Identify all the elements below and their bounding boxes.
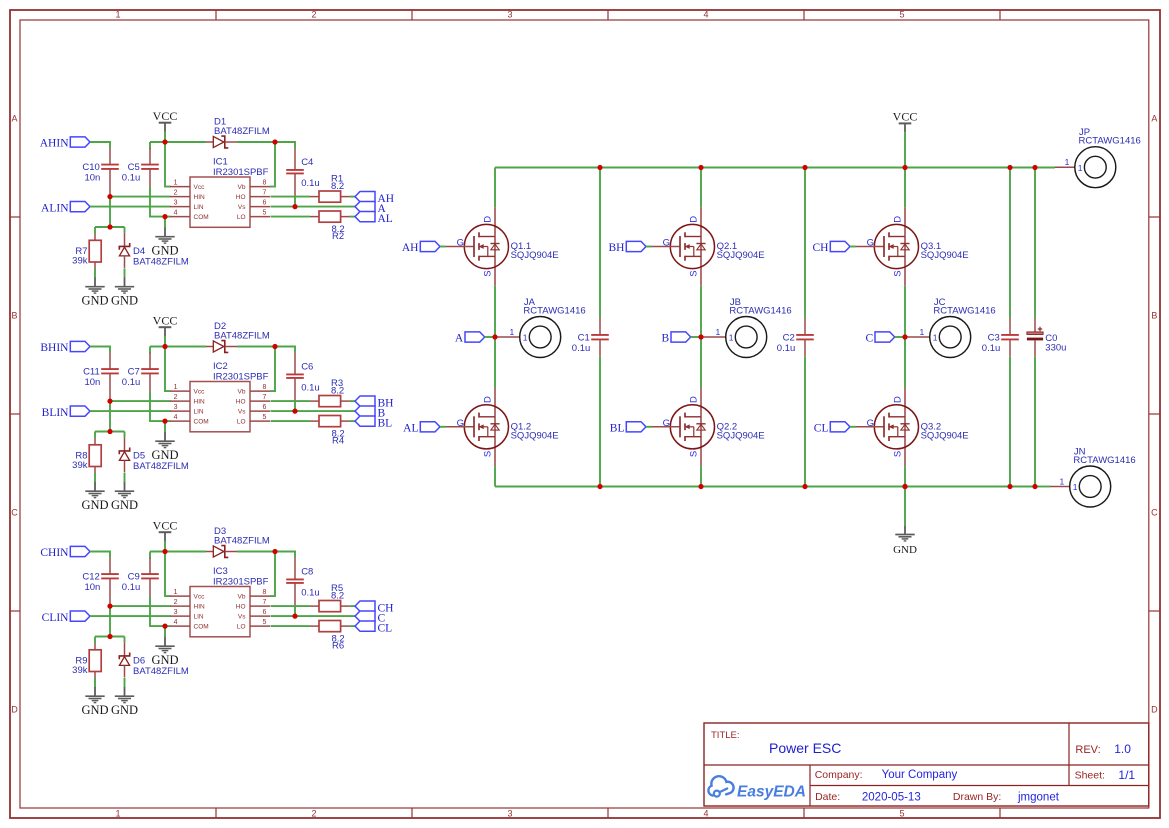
svg-text:8: 8 (263, 384, 267, 391)
wire (94, 637, 96, 644)
svg-text:BLIN: BLIN (42, 407, 70, 419)
svg-text:8.2: 8.2 (331, 181, 344, 192)
svg-text:A: A (11, 114, 17, 124)
net flag C (866, 332, 895, 345)
svg-text:5: 5 (263, 619, 267, 626)
svg-text:0.1u: 0.1u (301, 178, 320, 189)
ground (111, 278, 138, 308)
svg-text:COM: COM (194, 623, 209, 630)
svg-text:TITLE:: TITLE: (711, 730, 740, 741)
wire (850, 246, 856, 248)
capacitor C10 (82, 148, 118, 197)
wire (294, 402, 296, 411)
svg-text:B: B (1151, 311, 1157, 321)
wire (124, 637, 126, 643)
power flag VCC (IC3 section) (153, 518, 178, 551)
junction (698, 484, 703, 489)
junction (107, 399, 112, 404)
svg-text:6: 6 (263, 404, 267, 411)
IC IC2 IR2301SPBF (170, 361, 270, 432)
junction (107, 429, 112, 434)
svg-text:CH: CH (813, 242, 829, 254)
svg-text:Vb: Vb (238, 388, 246, 395)
junction (1007, 165, 1012, 170)
capacitor C0 (1027, 318, 1067, 357)
svg-text:2: 2 (311, 10, 316, 20)
svg-text:BHIN: BHIN (40, 342, 69, 354)
svg-text:C10: C10 (82, 162, 99, 173)
wire (270, 142, 275, 187)
wire (150, 597, 165, 627)
junction (1032, 484, 1037, 489)
net flag CL (814, 422, 850, 435)
connector JP RCTAWG1416 (1055, 127, 1141, 188)
wire (1034, 168, 1036, 319)
svg-text:D: D (11, 705, 18, 715)
ground (111, 687, 138, 717)
resistor R4 (310, 416, 350, 447)
wire (110, 400, 171, 402)
capacitor C8 (286, 558, 320, 608)
net flag AH (402, 241, 440, 254)
svg-text:LIN: LIN (194, 408, 204, 415)
junction (1032, 165, 1037, 170)
svg-text:BAT48ZFILM: BAT48ZFILM (133, 666, 189, 677)
wire (485, 336, 495, 338)
wire (1035, 486, 1050, 488)
wire (495, 167, 1035, 169)
diode D3 (206, 526, 270, 557)
resistor R5 (310, 583, 350, 612)
wire (494, 168, 496, 208)
wire (124, 268, 126, 277)
svg-text:S: S (892, 451, 903, 457)
svg-text:C: C (1151, 508, 1158, 518)
svg-text:B: B (11, 311, 17, 321)
svg-text:Vs: Vs (238, 408, 246, 415)
svg-text:0.1u: 0.1u (777, 343, 796, 354)
junction (162, 344, 167, 349)
svg-text:C7: C7 (128, 366, 140, 377)
svg-text:330u: 330u (1045, 342, 1066, 353)
wire (95, 226, 125, 228)
wire (94, 473, 96, 482)
wire (165, 625, 171, 627)
svg-text:1: 1 (115, 808, 120, 818)
junction (162, 139, 167, 144)
svg-text:4: 4 (174, 209, 178, 216)
svg-text:39k: 39k (72, 665, 88, 676)
svg-text:AL: AL (378, 213, 393, 225)
wire (1034, 357, 1036, 487)
power flag VCC (bridge) (893, 110, 918, 168)
junction (107, 194, 112, 199)
svg-text:C9: C9 (128, 571, 140, 582)
diode D4 (119, 233, 189, 268)
ground (81, 687, 108, 717)
net flag BHIN (40, 341, 90, 354)
wire (904, 286, 906, 388)
svg-text:1: 1 (523, 333, 528, 343)
svg-text:IC2: IC2 (213, 361, 228, 372)
svg-text:39k: 39k (72, 460, 88, 471)
svg-text:R2: R2 (332, 231, 344, 242)
svg-text:GND: GND (111, 293, 138, 307)
svg-text:REV:: REV: (1075, 744, 1100, 756)
svg-text:1: 1 (1065, 157, 1070, 167)
svg-text:BAT48ZFILM: BAT48ZFILM (133, 461, 189, 472)
svg-text:5: 5 (263, 209, 267, 216)
svg-text:1: 1 (174, 384, 178, 391)
wire (646, 246, 652, 248)
capacitor C12 (82, 558, 118, 607)
wire (90, 552, 110, 558)
junction (802, 484, 807, 489)
ground (151, 432, 178, 462)
svg-text:IR2301SPBF: IR2301SPBF (213, 371, 269, 382)
wire (237, 347, 295, 353)
wire (109, 401, 111, 431)
transistor Q1.1 (446, 207, 559, 286)
svg-text:2: 2 (174, 189, 178, 196)
svg-text:5: 5 (899, 10, 904, 20)
svg-text:CHIN: CHIN (40, 547, 69, 559)
wire (165, 142, 171, 187)
svg-text:A: A (1151, 114, 1157, 124)
wire (700, 168, 702, 208)
capacitor C7 (122, 353, 159, 392)
svg-text:HO: HO (236, 398, 246, 405)
svg-text:1.0: 1.0 (1114, 742, 1131, 756)
svg-text:CL: CL (378, 623, 393, 635)
wire (90, 410, 171, 412)
svg-text:jmgonet: jmgonet (1017, 791, 1060, 803)
capacitor C11 (83, 353, 119, 402)
wire (271, 410, 356, 412)
IC IC1 IR2301SPBF (170, 156, 270, 227)
capacitor C9 (122, 558, 159, 597)
wire (440, 246, 446, 248)
svg-text:RCTAWG1416: RCTAWG1416 (1073, 455, 1135, 466)
diode D1 (206, 117, 270, 148)
capacitor C3 (982, 318, 1019, 357)
svg-text:G: G (457, 418, 464, 429)
svg-text:LIN: LIN (194, 204, 204, 211)
wire (164, 421, 166, 432)
svg-text:D: D (482, 396, 493, 403)
wire (294, 607, 296, 616)
wire (350, 605, 355, 607)
svg-text:GND: GND (81, 293, 108, 307)
svg-text:LO: LO (237, 623, 246, 630)
junction (292, 614, 297, 619)
svg-text:1: 1 (509, 327, 514, 337)
svg-text:Company:: Company: (815, 769, 863, 781)
svg-text:1: 1 (715, 327, 720, 337)
svg-text:GND: GND (111, 498, 138, 512)
svg-text:3: 3 (174, 404, 178, 411)
wire (164, 626, 166, 637)
junction (272, 139, 277, 144)
net flag AL (355, 211, 393, 225)
svg-text:1: 1 (1073, 482, 1078, 492)
wire (350, 196, 355, 198)
svg-text:Vb: Vb (238, 184, 246, 191)
svg-text:G: G (663, 238, 670, 249)
svg-text:7: 7 (263, 394, 267, 401)
power flag VCC (IC1 section) (153, 109, 178, 142)
net flag CH (355, 601, 393, 615)
svg-text:10n: 10n (84, 377, 100, 388)
svg-text:IR2301SPBF: IR2301SPBF (213, 576, 269, 587)
wire (237, 142, 295, 148)
ground (151, 228, 178, 258)
svg-text:Sheet:: Sheet: (1075, 770, 1105, 782)
svg-text:0.1u: 0.1u (122, 582, 141, 593)
resistor R1 (310, 174, 350, 203)
junction (272, 344, 277, 349)
svg-text:BAT48ZFILM: BAT48ZFILM (133, 256, 189, 267)
svg-text:C12: C12 (82, 571, 99, 582)
transistor Q1.2 (446, 388, 559, 467)
svg-text:Vs: Vs (238, 204, 246, 211)
svg-text:D: D (1151, 705, 1158, 715)
svg-text:GND: GND (893, 544, 917, 556)
capacitor C5 (122, 148, 159, 187)
junction (162, 214, 167, 219)
svg-text:0.1u: 0.1u (122, 377, 141, 388)
wire (271, 196, 311, 198)
wire (271, 206, 356, 208)
svg-text:HO: HO (236, 603, 246, 610)
svg-text:VCC: VCC (153, 518, 178, 532)
svg-text:1: 1 (729, 333, 734, 343)
diode D5 (119, 437, 189, 472)
svg-text:Power ESC: Power ESC (769, 740, 841, 756)
capacitor C2 (777, 318, 814, 357)
net flag AL (403, 422, 440, 435)
svg-text:AHIN: AHIN (40, 138, 69, 150)
svg-text:D: D (688, 396, 699, 403)
net flag A (355, 201, 387, 215)
svg-text:5: 5 (899, 808, 904, 818)
wire (895, 336, 905, 338)
svg-text:CL: CL (814, 423, 829, 435)
svg-text:C1: C1 (578, 332, 590, 343)
svg-text:IR2301SPBF: IR2301SPBF (213, 167, 269, 178)
svg-text:SQJQ904E: SQJQ904E (921, 250, 969, 261)
svg-text:1: 1 (933, 333, 938, 343)
junction (292, 204, 297, 209)
svg-text:1: 1 (115, 10, 120, 20)
svg-text:EasyEDA: EasyEDA (737, 784, 806, 801)
resistor R9 (72, 643, 101, 678)
net flag B (355, 406, 386, 420)
svg-text:3: 3 (174, 609, 178, 616)
transistor Q2.2 (652, 388, 765, 467)
svg-text:G: G (457, 238, 464, 249)
svg-text:GND: GND (81, 703, 108, 717)
capacitor C6 (286, 353, 320, 403)
svg-text:C6: C6 (301, 362, 313, 373)
wire (700, 466, 702, 486)
svg-text:VCC: VCC (153, 109, 178, 123)
diode D2 (206, 321, 270, 352)
wire (165, 216, 171, 218)
connector JC RCTAWG1416 (905, 297, 996, 358)
net flag BLIN (42, 406, 90, 419)
junction (902, 165, 907, 170)
resistor R2 (310, 211, 350, 242)
wire (804, 168, 806, 319)
ground (111, 482, 138, 512)
svg-text:6: 6 (263, 199, 267, 206)
junction (162, 624, 167, 629)
svg-text:Your Company: Your Company (882, 769, 958, 781)
svg-text:IC1: IC1 (213, 156, 228, 167)
svg-text:1/1: 1/1 (1118, 768, 1135, 782)
net flag C (355, 611, 386, 625)
svg-text:6: 6 (263, 609, 267, 616)
EasyEDA logo (708, 776, 806, 800)
wire (495, 486, 1035, 488)
svg-text:S: S (482, 270, 493, 276)
junction (902, 484, 907, 489)
net flag CL (355, 621, 392, 635)
junction (492, 334, 497, 339)
ground (81, 482, 108, 512)
wire (494, 466, 496, 486)
svg-text:C: C (11, 508, 18, 518)
junction (902, 334, 907, 339)
wire (804, 357, 806, 487)
svg-text:R4: R4 (332, 436, 344, 447)
wire (90, 347, 110, 353)
ground (81, 278, 108, 308)
junction (292, 409, 297, 414)
wire (150, 551, 206, 553)
svg-text:4: 4 (174, 414, 178, 421)
wire (150, 346, 206, 348)
wire (271, 420, 311, 422)
wire (700, 286, 702, 388)
wire (149, 142, 151, 149)
svg-text:HIN: HIN (194, 398, 206, 405)
svg-text:RCTAWG1416: RCTAWG1416 (729, 305, 791, 316)
net flag BH (609, 241, 646, 254)
connector JA RCTAWG1416 (495, 297, 586, 358)
wire (149, 552, 151, 559)
wire (149, 347, 151, 354)
svg-text:1: 1 (1078, 163, 1083, 173)
svg-text:S: S (688, 270, 699, 276)
svg-text:2: 2 (311, 808, 316, 818)
net flag CH (813, 241, 850, 254)
wire (164, 217, 166, 228)
svg-text:8: 8 (263, 589, 267, 596)
net flag B (662, 332, 691, 345)
wire (350, 216, 355, 218)
connector JB RCTAWG1416 (701, 297, 792, 358)
svg-text:B: B (662, 333, 670, 345)
svg-text:COM: COM (194, 418, 209, 425)
net flag AH (355, 191, 394, 205)
svg-text:C5: C5 (128, 162, 140, 173)
svg-text:7: 7 (263, 189, 267, 196)
svg-text:BH: BH (609, 242, 625, 254)
svg-text:3: 3 (507, 10, 512, 20)
svg-text:Vcc: Vcc (194, 388, 206, 395)
transistor Q3.2 (856, 388, 969, 467)
svg-text:5: 5 (263, 414, 267, 421)
wire (124, 473, 126, 482)
capacitor C4 (286, 148, 320, 198)
svg-text:HO: HO (236, 194, 246, 201)
wire (350, 625, 355, 627)
resistor R3 (310, 378, 350, 407)
power flag VCC (IC2 section) (153, 313, 178, 346)
junction (597, 484, 602, 489)
svg-text:SQJQ904E: SQJQ904E (511, 250, 559, 261)
wire (124, 432, 126, 438)
svg-text:AL: AL (403, 423, 418, 435)
wire (1035, 167, 1055, 169)
wire (294, 198, 296, 207)
svg-text:2: 2 (174, 394, 178, 401)
wire (90, 615, 171, 617)
svg-text:0.1u: 0.1u (982, 343, 1001, 354)
junction (698, 165, 703, 170)
svg-text:ALIN: ALIN (41, 202, 69, 214)
svg-text:BAT48ZFILM: BAT48ZFILM (214, 330, 270, 341)
svg-text:S: S (482, 451, 493, 457)
svg-text:LO: LO (237, 418, 246, 425)
svg-text:3: 3 (507, 808, 512, 818)
svg-text:GND: GND (81, 498, 108, 512)
wire (95, 431, 125, 433)
junction (107, 634, 112, 639)
svg-text:RCTAWG1416: RCTAWG1416 (1079, 136, 1141, 147)
svg-text:HIN: HIN (194, 603, 206, 610)
svg-text:1: 1 (1059, 476, 1064, 486)
svg-text:G: G (867, 418, 874, 429)
title block (704, 723, 1149, 806)
ground (151, 637, 178, 667)
svg-text:A: A (455, 333, 464, 345)
svg-text:8: 8 (263, 179, 267, 186)
svg-text:2020-05-13: 2020-05-13 (862, 791, 921, 803)
svg-text:GND: GND (151, 243, 178, 257)
svg-text:0.1u: 0.1u (572, 343, 591, 354)
wire (691, 336, 701, 338)
svg-text:39k: 39k (72, 255, 88, 266)
wire (270, 552, 275, 597)
wire (271, 615, 356, 617)
svg-text:C4: C4 (301, 157, 313, 168)
svg-text:SQJQ904E: SQJQ904E (717, 250, 765, 261)
wire (237, 552, 295, 558)
svg-text:0.1u: 0.1u (122, 173, 141, 184)
net flag BL (610, 422, 646, 435)
svg-text:BAT48ZFILM: BAT48ZFILM (214, 535, 270, 546)
svg-text:8.2: 8.2 (331, 385, 344, 396)
wire (94, 432, 96, 439)
svg-text:C8: C8 (301, 567, 313, 578)
svg-text:CLIN: CLIN (42, 612, 70, 624)
junction (107, 604, 112, 609)
wire (165, 347, 171, 392)
svg-text:BL: BL (378, 418, 393, 430)
